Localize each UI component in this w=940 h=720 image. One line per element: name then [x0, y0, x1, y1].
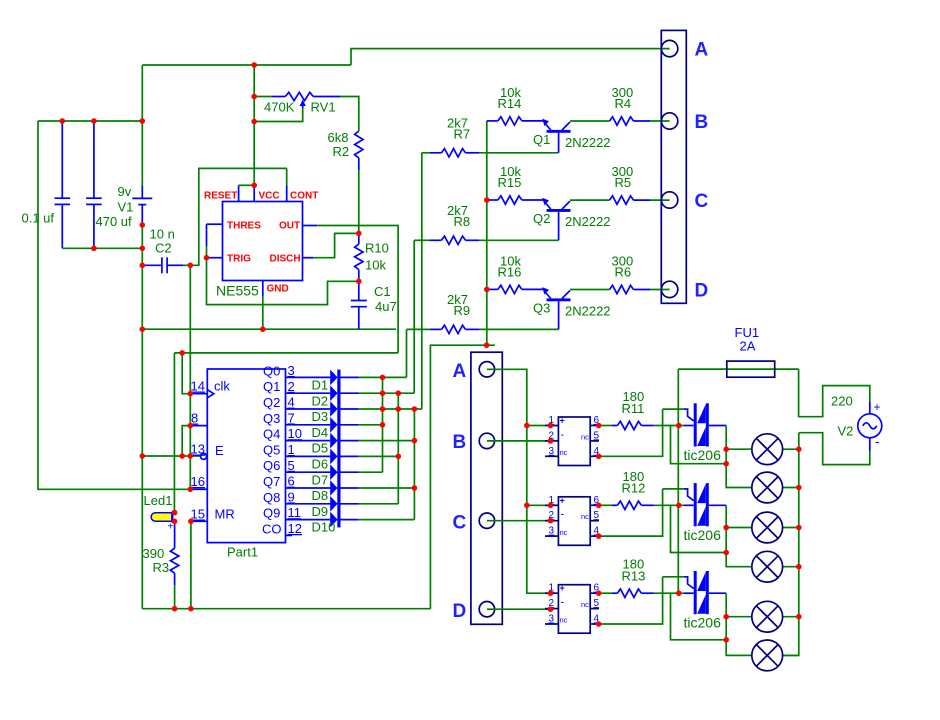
svg-text:Q2: Q2 [533, 211, 550, 226]
resistor R12 [599, 504, 612, 506]
svg-text:tic206: tic206 [684, 527, 722, 543]
opto U2 pin 2 stub [545, 520, 558, 522]
svg-text:Q6: Q6 [263, 458, 280, 473]
svg-text:5: 5 [594, 510, 600, 521]
svg-text:RV1: RV1 [311, 100, 336, 115]
node ret2-tap [723, 550, 729, 556]
svg-text:8: 8 [191, 411, 198, 426]
svg-text:6: 6 [288, 474, 295, 489]
opto U3 pin 6 stub [590, 592, 599, 594]
node mains-T1 [676, 423, 682, 429]
svg-text:D6: D6 [312, 457, 329, 472]
svg-text:nc: nc [581, 512, 589, 521]
node trig [204, 255, 210, 261]
node mains-T2 [676, 503, 682, 509]
node pin1bus-1 [524, 423, 530, 429]
node E-mid [179, 453, 185, 459]
pin 16 stub [192, 488, 207, 490]
pin clk [188, 391, 194, 397]
opto U3 box [558, 585, 590, 634]
svg-text:2N2222: 2N2222 [565, 135, 611, 150]
wire matrix row7 [341, 471, 359, 473]
node rail-L1 [796, 446, 802, 452]
resistor R13 [599, 592, 612, 594]
pin U3-1 [548, 590, 554, 596]
node rv1-left [251, 94, 257, 100]
svg-text:D5: D5 [312, 441, 329, 456]
wire top horizontal V+ [142, 64, 351, 66]
svg-text:9: 9 [288, 489, 295, 504]
svg-text:14: 14 [191, 379, 205, 394]
opto U1 pin 1 stub [545, 425, 558, 427]
transistor Q3 [542, 287, 549, 295]
wire top-left rail y=121 [38, 120, 142, 122]
diode D4 [330, 417, 337, 433]
svg-text:+: + [560, 495, 565, 505]
svg-text:D: D [695, 281, 709, 302]
svg-text:-: - [561, 509, 565, 521]
triac T2 MT1 lead [709, 504, 726, 506]
wire branch opto1 pin1 [527, 425, 551, 427]
node rail-cap1 [60, 118, 66, 124]
node r16-tap [484, 287, 490, 293]
node v1-r1 [380, 375, 386, 381]
svg-text:V1: V1 [118, 200, 134, 215]
pin Q9 wire [286, 519, 331, 521]
pin Q6 wire [286, 471, 331, 473]
pin U1-1 [548, 423, 554, 429]
wire matrix row1 [341, 376, 359, 378]
opto U3 pin 1 stub [545, 592, 558, 594]
svg-text:D: D [453, 601, 467, 622]
svg-text:R8: R8 [454, 214, 471, 229]
wire Q2 base row [479, 239, 559, 241]
opto U2 pin 1 stub [545, 504, 558, 506]
resistor R8 [414, 239, 430, 241]
pin U1-4 [596, 454, 602, 460]
svg-text:R10: R10 [365, 241, 389, 256]
svg-text:clk: clk [214, 379, 230, 394]
pin E [188, 453, 194, 459]
opto U3 pin 4 stub [590, 623, 599, 625]
pin U1-2 [548, 438, 554, 444]
svg-text:3: 3 [549, 614, 555, 625]
svg-text:D10: D10 [312, 520, 336, 535]
opto U3 pin 5 stub [590, 608, 599, 610]
diode D8 [330, 480, 337, 496]
svg-text:R4: R4 [615, 96, 632, 111]
triac T3 MT2 lead [684, 592, 694, 594]
pin Q1 wire [286, 392, 331, 394]
wire OUT to clk riser [317, 226, 398, 353]
node basebus-gnd [484, 342, 490, 348]
wire D to opto3 pin2 [487, 608, 551, 610]
pin Q3 wire [286, 424, 331, 426]
svg-text:3: 3 [549, 526, 555, 537]
wire left battery column x=142 [141, 65, 143, 186]
wire opto U1 pin4 to gate [599, 409, 663, 456]
triac T2 MT2 lead [684, 504, 694, 506]
node v1-r4 [380, 422, 386, 428]
pin 16 [188, 487, 194, 493]
svg-text:Q9: Q9 [263, 506, 280, 521]
capacitor C2 plates [161, 257, 163, 273]
svg-text:5: 5 [288, 458, 295, 473]
node C2-right [188, 263, 194, 269]
svg-text:R12: R12 [622, 481, 646, 496]
resistor R5 [610, 196, 634, 204]
wire MT1 riser T3 [726, 593, 752, 655]
pin CONT stub [286, 168, 288, 186]
pin GND stub [262, 281, 264, 297]
potentiometer RV1 wiper [254, 108, 303, 122]
node rail-L2 [796, 485, 802, 491]
opto U1 pin 6 stub [590, 425, 599, 427]
svg-text:CONT: CONT [290, 191, 318, 202]
opto U1 pin 2 stub [545, 440, 558, 442]
wire battery to bottom [141, 225, 143, 609]
svg-text:3: 3 [549, 446, 555, 457]
wire TRIG to timing node [207, 258, 359, 305]
wire clk drop [182, 353, 190, 394]
wire B to opto1 pin2 [487, 440, 551, 442]
wire riser to R7 [421, 153, 423, 409]
wire branch opto2 pin1 [527, 504, 551, 506]
svg-text:7: 7 [288, 410, 295, 425]
node mains-T3 [676, 590, 682, 596]
opto U2 pin 5 stub [590, 520, 599, 522]
svg-text:4u7: 4u7 [375, 299, 397, 314]
pin MR [188, 519, 194, 525]
opto U2 pin 4 stub [590, 535, 599, 537]
pin U3-4 [596, 621, 602, 627]
node mr-gnd [188, 606, 194, 612]
wire opto U3 pin4 to gate [599, 577, 663, 624]
wire A-bus riser x=430 [430, 345, 495, 609]
node v2-r6 [396, 454, 402, 460]
wire Q1 base row [479, 152, 559, 154]
capacitor C 470uf leads [93, 121, 95, 198]
opto U2 pin 3 stub [545, 535, 558, 537]
resistor R6 [610, 285, 634, 293]
pin U2-4 [596, 533, 602, 539]
pin RESET stub [238, 185, 240, 201]
node E-left [140, 453, 146, 459]
svg-text:9v: 9v [118, 184, 132, 199]
wire Q2 collector [570, 199, 610, 201]
svg-text:R13: R13 [622, 569, 646, 584]
svg-text:OUT: OUT [279, 221, 300, 232]
svg-text:B: B [695, 112, 709, 133]
resistor R4 [610, 117, 634, 125]
svg-text:R7: R7 [454, 127, 471, 142]
pin 8 [188, 423, 194, 429]
wire matrix row5 [341, 440, 359, 442]
node v1-r2 [380, 390, 386, 396]
diode D9 [330, 496, 337, 512]
lamp L3 leads [726, 527, 752, 529]
opto U3 pin 3 stub [545, 623, 558, 625]
wire matrix row3 [341, 408, 359, 410]
LED bottom lead [174, 523, 176, 548]
opto U1 pin 3 stub [545, 455, 558, 457]
resistor R2 bottom lead [358, 158, 360, 170]
wire matrix row4 [341, 424, 359, 426]
pin Q5 wire [286, 455, 331, 457]
wire fuse line [678, 368, 798, 370]
svg-text:MR: MR [215, 507, 235, 522]
svg-text:-: - [561, 597, 565, 609]
wire matrix row6 [341, 455, 359, 457]
svg-text:1: 1 [288, 442, 295, 457]
svg-text:nc: nc [581, 600, 589, 609]
resistor R7 [422, 152, 430, 154]
svg-text:RESET: RESET [204, 191, 237, 202]
pin U2-1 [548, 503, 554, 509]
wire Q3 collector [570, 289, 610, 291]
pin clk stub [190, 393, 207, 395]
triac T3 MT1 lead [709, 592, 726, 594]
svg-text:+: + [560, 583, 565, 593]
svg-text:16: 16 [191, 474, 205, 489]
triac T1 MT2 lead [684, 425, 694, 427]
wire MT1 riser T1 [726, 426, 752, 488]
connector CON2 box [471, 352, 502, 624]
pin VCC stub [253, 185, 255, 201]
triac T1 [694, 403, 697, 446]
svg-text:2N2222: 2N2222 [565, 304, 611, 319]
capacitor C1 leads [358, 281, 360, 300]
svg-text:470 uf: 470 uf [96, 214, 133, 229]
svg-text:Led1: Led1 [144, 493, 173, 508]
connector CON1 pin D [661, 281, 677, 297]
node v3-r5 [412, 438, 418, 444]
wire V2 minus to lamp rail [799, 433, 870, 465]
connector CON2 pin D [479, 602, 494, 617]
wire MR down [190, 521, 192, 608]
triac T3 gate lead [663, 576, 684, 578]
connector CON1 pin B [661, 113, 677, 129]
svg-text:5: 5 [594, 598, 600, 609]
node rail-L4 [796, 564, 802, 570]
svg-text:2A: 2A [740, 339, 756, 354]
diode D7 [330, 464, 337, 480]
source V2 body [858, 414, 882, 438]
node rail-cap2 [91, 118, 97, 124]
node r10-top [356, 231, 362, 237]
node rail-L3 [796, 525, 802, 531]
diode D3 [330, 401, 337, 417]
pin MR stub [191, 520, 207, 522]
wire lamp rail x=799 [783, 433, 799, 656]
node gnd-pin [260, 326, 266, 332]
svg-text:Q3: Q3 [263, 411, 280, 426]
diode cathode bar column [337, 370, 340, 528]
svg-text:C: C [453, 513, 467, 534]
diode D6 [330, 449, 337, 465]
wire mains rail x=678 [677, 369, 679, 593]
svg-text:390: 390 [143, 546, 165, 561]
potentiometer RV1 body [285, 92, 313, 100]
opto U1 pin 5 stub [590, 440, 599, 442]
pin DISCH stub [303, 257, 314, 259]
node caps-bottom [91, 246, 97, 252]
resistor R2 body [355, 131, 363, 158]
wire thres-trig link [206, 224, 208, 246]
wire opto U2 pin4 to gate [599, 489, 663, 536]
svg-text:R6: R6 [615, 265, 632, 280]
diode D10 [330, 512, 337, 528]
svg-text:TRIG: TRIG [227, 254, 251, 265]
pin Q0 wire [286, 376, 331, 378]
resistor R10 [358, 233, 360, 244]
node bat-minus [140, 222, 146, 228]
triac T2 gate lead [663, 488, 684, 490]
node v2-r3 [396, 406, 402, 412]
fuse FU1 body [727, 361, 775, 377]
wire C to opto2 pin2 [487, 520, 551, 522]
pin OUT stub [303, 225, 318, 227]
svg-text:D2: D2 [312, 393, 329, 408]
lamp L6 leads [783, 654, 799, 656]
wire bus v1 [382, 377, 384, 472]
svg-text:-: - [875, 433, 880, 449]
node bat-bottom-rail [140, 246, 146, 252]
node v3-r8 [412, 485, 418, 491]
svg-text:3: 3 [288, 363, 295, 378]
resistor R3 body [170, 548, 178, 573]
capacitor C1 plates [351, 300, 367, 302]
node gnd-left [140, 326, 146, 332]
svg-text:470K: 470K [264, 100, 295, 115]
svg-text:nc: nc [560, 616, 568, 625]
wire gate return T1 [671, 426, 727, 464]
resistor R9 [407, 328, 431, 330]
pin Q4 wire [286, 440, 331, 442]
svg-text:A: A [453, 361, 467, 382]
svg-text:Q7: Q7 [263, 474, 280, 489]
wire Q1 collector [570, 120, 610, 122]
svg-text:THRES: THRES [227, 221, 261, 232]
svg-text:VCC: VCC [259, 191, 280, 202]
svg-text:Q2: Q2 [263, 395, 280, 410]
svg-text:D9: D9 [312, 504, 329, 519]
wire Q3 base row [479, 328, 559, 330]
pin 8 stub [190, 425, 207, 427]
node r3-gnd [172, 606, 178, 612]
wire GND down [262, 296, 264, 329]
node rv1-wiper [251, 119, 257, 125]
node vcc-pin [251, 183, 257, 189]
connector CON1 box [661, 30, 686, 303]
svg-text:nc: nc [560, 448, 568, 457]
lamp L6 body [752, 640, 783, 671]
triac T3 [694, 571, 697, 614]
svg-text:220: 220 [831, 394, 853, 409]
svg-text:R5: R5 [615, 175, 632, 190]
svg-text:R16: R16 [498, 265, 522, 280]
potentiometer RV1 right lead [313, 96, 340, 98]
wire left rail x=38 down to pin16 row [38, 121, 190, 489]
resistor R3 bottom lead [174, 573, 176, 585]
transistor Q2 [542, 198, 549, 206]
svg-text:C2: C2 [155, 241, 172, 256]
svg-text:R11: R11 [622, 401, 645, 416]
pin CO stub [286, 534, 293, 536]
LED Led1 body [151, 513, 172, 522]
lamp L5 body [752, 601, 783, 632]
wire gate return T3 [671, 593, 727, 640]
triac T2 [694, 483, 697, 526]
svg-text:10k: 10k [365, 258, 386, 273]
pin U3-2 [548, 606, 554, 612]
potentiometer RV1 left lead [254, 96, 272, 98]
node rail-bat [140, 118, 146, 124]
diode D5 [330, 433, 337, 449]
wire pin1 bus from A [487, 369, 551, 593]
opto U2 pin 6 stub [590, 504, 599, 506]
pin led-top [172, 510, 178, 516]
connector CON2 pin C [479, 513, 494, 528]
wire bus v3 [413, 409, 415, 520]
wire main VCC vertical x=254 [253, 65, 255, 185]
wire TRIG node vertical x=190 [189, 265, 191, 489]
svg-text:R15: R15 [498, 175, 522, 190]
pin THRES stub [207, 223, 223, 225]
lamp L1 body [752, 434, 783, 465]
counter Part1 box [207, 369, 285, 543]
svg-text:10: 10 [288, 426, 302, 441]
triac T1 MT1 lead [709, 425, 726, 427]
opto U3 pin 2 stub [545, 608, 558, 610]
connector CON1 pin A [661, 40, 677, 56]
node v3-r3 [412, 406, 418, 412]
pin Q2 wire [286, 408, 331, 410]
svg-text:C1: C1 [374, 284, 391, 299]
node L5-tap [723, 614, 729, 620]
lamp L4 leads [783, 566, 799, 568]
svg-text:E: E [215, 443, 224, 458]
svg-text:D4: D4 [312, 425, 329, 440]
transistor Q1 [542, 119, 549, 127]
svg-text:2N2222: 2N2222 [565, 214, 611, 229]
svg-text:C: C [695, 191, 709, 212]
battery V1 plates [132, 197, 152, 199]
svg-text:tic206: tic206 [684, 615, 722, 631]
opto U1 box [558, 417, 590, 466]
pin U1-6 [596, 423, 602, 429]
lamp L2 leads [783, 487, 799, 489]
wire reset-vcc link [239, 184, 255, 186]
source V2 bottom lead [869, 438, 871, 451]
lamp L1 leads [726, 448, 752, 450]
svg-text:10 n: 10 n [150, 227, 175, 242]
svg-text:Part1: Part1 [227, 545, 258, 560]
wire bus v2 [397, 393, 399, 504]
svg-text:Q4: Q4 [263, 427, 280, 442]
connector CON1 pin C [661, 192, 677, 208]
wire base bus x=487 [486, 121, 488, 345]
wire C2 node up to CONT loop [190, 168, 286, 265]
svg-text:R14: R14 [498, 96, 522, 111]
triac T1 gate lead [663, 408, 684, 410]
svg-text:6k8: 6k8 [328, 130, 349, 145]
svg-text:R2: R2 [333, 144, 350, 159]
battery V1 leads [141, 186, 143, 198]
svg-text:nc: nc [581, 432, 589, 441]
svg-text:+: + [560, 416, 565, 426]
wire ground rail [142, 328, 396, 330]
